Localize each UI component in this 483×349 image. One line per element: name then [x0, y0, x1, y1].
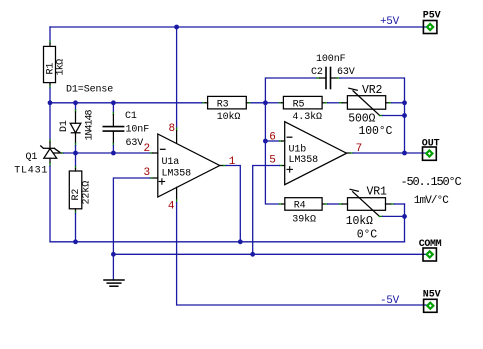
- wire top +5V rail: [50, 26, 426, 28]
- svg-text:4: 4: [168, 200, 175, 212]
- svg-text:C1: C1: [125, 111, 137, 122]
- pin U1b pin5: [282, 165, 285, 167]
- svg-text:-5V: -5V: [380, 295, 400, 307]
- node U1a out junction: [238, 239, 243, 244]
- potentiometer VR2: [340, 102, 342, 104]
- resistor R4: [279, 203, 282, 205]
- pin U1a pin8: [176, 128, 178, 131]
- svg-text:1N4148: 1N4148: [85, 109, 96, 140]
- node R3 right junction: [263, 100, 268, 105]
- capacitor C1: [112, 103, 114, 113]
- svg-text:VR1: VR1: [367, 185, 388, 198]
- wire pin8 drop: [176, 27, 178, 128]
- pin U1b pin7 output: [347, 152, 351, 154]
- node R2 bottom junction: [73, 239, 78, 244]
- wire C2 branch up: [265, 78, 317, 103]
- svg-text:63V: 63V: [126, 138, 144, 149]
- svg-text:10kΩ: 10kΩ: [217, 111, 241, 123]
- wire VR1 right rail down to line1: [404, 204, 406, 242]
- node VR2 right junction: [402, 100, 407, 105]
- svg-text:3: 3: [144, 167, 150, 179]
- svg-text:D1: D1: [59, 120, 70, 132]
- pin U1a pin2: [151, 152, 153, 154]
- wire COMM bus: [113, 253, 425, 255]
- svg-text:+5V: +5V: [380, 16, 400, 28]
- wire pin5 to ground rail: [253, 166, 280, 255]
- potentiometer VR1: [340, 203, 343, 205]
- connector N5V: [424, 299, 437, 312]
- wire upper bus y=103: [50, 102, 203, 104]
- node ground junction: [111, 252, 116, 257]
- svg-text:Q1: Q1: [26, 152, 38, 163]
- wire C2 right to out rail: [340, 78, 405, 103]
- svg-text:0°C: 0°C: [357, 229, 378, 242]
- svg-text:N5V: N5V: [423, 290, 441, 301]
- svg-text:U1b: U1b: [289, 144, 307, 156]
- ground: [112, 254, 114, 280]
- svg-text:U1a: U1a: [162, 157, 180, 168]
- node junction top rail to pin8: [174, 25, 179, 30]
- resistor R3: [203, 102, 205, 104]
- wire mid bus y=153: [64, 152, 151, 154]
- diode D1: [75, 103, 77, 110]
- node R1 bottom junction: [48, 100, 53, 105]
- node C1 top junction: [111, 100, 116, 105]
- svg-text:OUT: OUT: [422, 138, 440, 149]
- svg-text:1kΩ: 1kΩ: [55, 59, 67, 76]
- wire pin6 rail: [265, 103, 279, 204]
- connector COMM: [423, 248, 436, 261]
- svg-text:500Ω: 500Ω: [348, 113, 375, 126]
- svg-text:P5V: P5V: [423, 11, 441, 22]
- wire U1a out down to line1: [226, 166, 240, 242]
- svg-text:-50..150°C: -50..150°C: [401, 175, 462, 189]
- node VR1 wiper junction: [402, 214, 407, 219]
- svg-text:LM358: LM358: [289, 155, 319, 166]
- svg-text:VR2: VR2: [362, 84, 383, 97]
- svg-text:2: 2: [144, 143, 150, 155]
- svg-text:COMM: COMM: [419, 239, 442, 250]
- svg-text:100°C: 100°C: [359, 125, 393, 138]
- svg-text:100nF: 100nF: [316, 54, 346, 65]
- svg-text:LM358: LM358: [162, 169, 192, 180]
- resistor R5: [265, 102, 279, 104]
- resistor R1: [49, 27, 51, 41]
- pin U1a pin1 output: [220, 165, 224, 167]
- node OUT junction: [402, 151, 407, 156]
- wire right out rail: [404, 103, 406, 153]
- node VR2 wiper junction: [402, 113, 407, 118]
- wire pin3 to ground bus: [113, 178, 149, 254]
- svg-text:D1=Sense: D1=Sense: [66, 85, 113, 96]
- wire line1 reference bus: [50, 166, 405, 242]
- node pin5 rail junction: [250, 252, 255, 257]
- svg-text:R3: R3: [217, 99, 229, 110]
- node C1 bottom junction: [111, 151, 116, 156]
- svg-text:39kΩ: 39kΩ: [292, 213, 316, 225]
- connector P5V: [423, 21, 437, 34]
- svg-text:TL431: TL431: [14, 166, 48, 177]
- wire pin4 to -5V rail: [177, 203, 426, 306]
- pin U1a pin4: [176, 187, 178, 200]
- svg-text:4.3kΩ: 4.3kΩ: [292, 111, 322, 123]
- op-amp U1a: [158, 134, 220, 197]
- svg-text:8: 8: [169, 123, 175, 135]
- svg-text:1: 1: [229, 156, 236, 168]
- node D1 bottom junction: [73, 151, 78, 156]
- svg-text:R5: R5: [293, 99, 305, 110]
- svg-text:10kΩ: 10kΩ: [346, 215, 373, 228]
- svg-text:22kΩ: 22kΩ: [81, 181, 93, 205]
- svg-text:5: 5: [269, 155, 275, 167]
- svg-text:63V: 63V: [337, 67, 355, 78]
- pin U1b pin6: [265, 140, 279, 142]
- svg-text:10nF: 10nF: [126, 125, 150, 136]
- capacitor C2: [317, 77, 320, 79]
- svg-text:6: 6: [269, 132, 275, 144]
- resistor R2: [75, 153, 77, 167]
- pin U1a pin3: [152, 177, 158, 179]
- connector OUT: [423, 147, 437, 160]
- transistor Q1 TL431: [49, 103, 51, 140]
- op-amp U1b: [285, 122, 347, 185]
- node pin6 junction: [263, 139, 268, 144]
- svg-text:C2: C2: [311, 67, 323, 78]
- svg-text:1mV/°C: 1mV/°C: [414, 195, 450, 207]
- wire pin7 to OUT: [353, 152, 425, 154]
- node D1 top junction: [73, 100, 78, 105]
- svg-text:R4: R4: [294, 201, 306, 212]
